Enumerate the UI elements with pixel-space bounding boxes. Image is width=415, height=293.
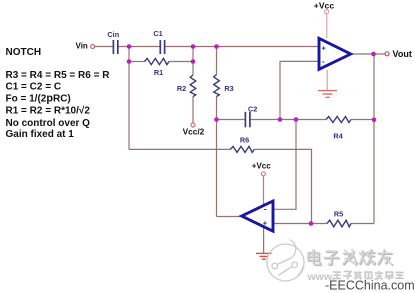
svg-text:-EECChina.com: -EECChina.com: [325, 279, 415, 293]
svg-text:R6: R6: [240, 135, 249, 144]
svg-text:+Vcc: +Vcc: [314, 1, 335, 11]
svg-text:+: +: [322, 44, 327, 53]
svg-text:R4: R4: [333, 132, 343, 141]
svg-text:Vout: Vout: [393, 49, 412, 59]
svg-text:-: -: [264, 205, 267, 214]
svg-text:R2: R2: [177, 84, 186, 93]
svg-text:-: -: [322, 57, 325, 66]
svg-text:No control over Q: No control over Q: [6, 118, 91, 129]
svg-text:C2: C2: [248, 105, 257, 114]
svg-text:+Vcc: +Vcc: [252, 161, 271, 170]
svg-text:R3 = R4 = R5 = R6 = R: R3 = R4 = R5 = R6 = R: [6, 70, 111, 81]
svg-text:R3: R3: [224, 84, 233, 93]
svg-text:R1: R1: [154, 68, 163, 77]
svg-text:Fo = 1/(2pRC): Fo = 1/(2pRC): [6, 93, 71, 105]
svg-text:C1: C1: [153, 29, 162, 38]
svg-text:R5: R5: [334, 210, 343, 219]
svg-text:R1 = R2 = R*10/√2: R1 = R2 = R*10/√2: [6, 106, 91, 117]
svg-text:C1 = C2 = C: C1 = C2 = C: [6, 82, 62, 93]
svg-text:Vin: Vin: [76, 41, 88, 50]
svg-text:Cin: Cin: [107, 30, 119, 39]
svg-text:Vcc/2: Vcc/2: [183, 127, 205, 137]
svg-text:NOTCH: NOTCH: [6, 47, 42, 58]
svg-text:+: +: [263, 219, 268, 228]
svg-text:Gain fixed at 1: Gain fixed at 1: [6, 129, 75, 140]
